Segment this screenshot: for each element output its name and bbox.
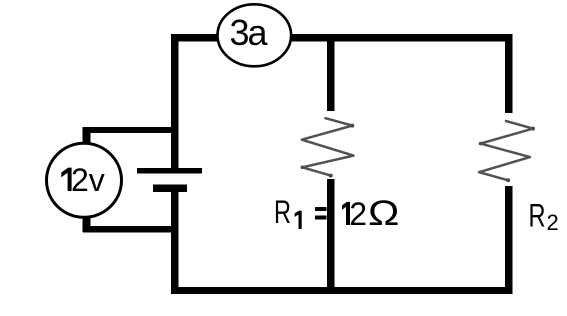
svg-text:2: 2	[547, 210, 559, 235]
svg-text:R: R	[274, 194, 291, 230]
svg-text:Ω: Ω	[368, 194, 399, 233]
svg-text:2: 2	[349, 196, 367, 232]
svg-text:2v: 2v	[71, 162, 105, 198]
svg-text:3a: 3a	[230, 12, 269, 53]
svg-text:R: R	[529, 198, 546, 234]
